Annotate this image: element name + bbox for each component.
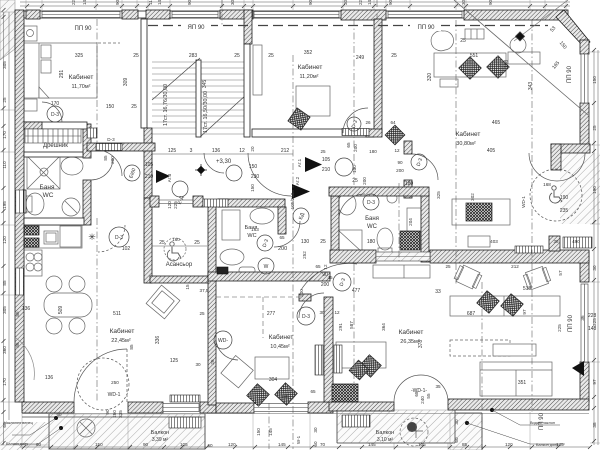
svg-text:225: 225 bbox=[173, 201, 178, 209]
svg-text:Балкон: Балкон bbox=[151, 430, 169, 436]
svg-text:130: 130 bbox=[301, 239, 310, 245]
svg-text:97: 97 bbox=[592, 379, 597, 385]
svg-text:85: 85 bbox=[15, 311, 20, 317]
svg-text:60: 60 bbox=[56, 412, 62, 417]
svg-text:3,39 м²: 3,39 м² bbox=[152, 437, 169, 443]
svg-text:687: 687 bbox=[467, 311, 476, 317]
svg-text:85: 85 bbox=[103, 155, 108, 161]
svg-text:15: 15 bbox=[185, 284, 190, 290]
svg-text:36: 36 bbox=[580, 315, 585, 321]
svg-text:325: 325 bbox=[436, 191, 441, 199]
svg-text:65: 65 bbox=[315, 264, 321, 269]
svg-text:302: 302 bbox=[470, 193, 475, 201]
svg-text:57: 57 bbox=[558, 270, 563, 276]
svg-text:509: 509 bbox=[58, 306, 64, 315]
svg-text:70: 70 bbox=[320, 442, 326, 447]
svg-text:283: 283 bbox=[189, 53, 198, 59]
svg-text:105: 105 bbox=[180, 442, 188, 447]
svg-text:D-3: D-3 bbox=[51, 112, 59, 118]
svg-text:140: 140 bbox=[367, 0, 372, 5]
svg-text:25: 25 bbox=[199, 311, 205, 316]
svg-text:33: 33 bbox=[435, 289, 441, 295]
svg-text:90: 90 bbox=[105, 409, 110, 415]
svg-text:490: 490 bbox=[572, 239, 580, 244]
svg-text:WD-: WD- bbox=[218, 338, 228, 344]
svg-text:352: 352 bbox=[304, 50, 313, 56]
svg-text:Кабинет: Кабинет bbox=[298, 63, 323, 71]
svg-text:25: 25 bbox=[194, 240, 200, 246]
svg-text:140: 140 bbox=[82, 0, 87, 5]
svg-text:200: 200 bbox=[353, 144, 358, 152]
svg-text:17ст. 16,76/30,00: 17ст. 16,76/30,00 bbox=[163, 84, 169, 126]
svg-text:85: 85 bbox=[462, 442, 468, 447]
svg-text:130: 130 bbox=[352, 165, 357, 173]
svg-text:64: 64 bbox=[390, 120, 396, 125]
svg-text:225: 225 bbox=[71, 0, 76, 5]
svg-text:110: 110 bbox=[2, 161, 7, 169]
svg-text:225: 225 bbox=[358, 0, 363, 5]
svg-text:D-3: D-3 bbox=[367, 200, 375, 206]
svg-text:45: 45 bbox=[327, 275, 333, 280]
svg-text:-WD-1-: -WD-1- bbox=[411, 388, 427, 394]
svg-text:D-3: D-3 bbox=[302, 314, 310, 320]
svg-text:403: 403 bbox=[490, 239, 498, 244]
svg-text:17ст. 16,50/30,00: 17ст. 16,50/30,00 bbox=[203, 91, 209, 133]
svg-text:200: 200 bbox=[396, 168, 404, 173]
svg-text:ПП 90: ПП 90 bbox=[75, 26, 93, 32]
svg-text:Ат.1: Ат.1 bbox=[297, 158, 302, 167]
svg-text:190: 190 bbox=[592, 186, 597, 194]
svg-text:Кабинет: Кабинет bbox=[69, 73, 94, 81]
svg-text:90: 90 bbox=[388, 0, 393, 5]
svg-text:105: 105 bbox=[145, 162, 154, 168]
svg-text:25: 25 bbox=[320, 149, 326, 154]
svg-text:277: 277 bbox=[267, 311, 276, 317]
svg-text:97: 97 bbox=[522, 309, 527, 315]
svg-text:125: 125 bbox=[168, 148, 177, 154]
svg-text:587: 587 bbox=[349, 321, 354, 329]
svg-text:WD-1: WD-1 bbox=[521, 196, 526, 208]
svg-text:204: 204 bbox=[408, 218, 413, 226]
svg-text:WC: WC bbox=[247, 233, 256, 239]
svg-text:30: 30 bbox=[343, 0, 348, 5]
svg-text:85: 85 bbox=[2, 280, 7, 286]
svg-text:120: 120 bbox=[505, 442, 513, 447]
svg-text:120: 120 bbox=[167, 201, 172, 209]
svg-text:ПП 90: ПП 90 bbox=[568, 314, 574, 332]
svg-text:25: 25 bbox=[268, 53, 274, 59]
svg-text:90: 90 bbox=[187, 0, 192, 5]
svg-text:150: 150 bbox=[592, 76, 597, 84]
svg-text:150: 150 bbox=[249, 164, 258, 170]
svg-text:136: 136 bbox=[22, 306, 31, 312]
svg-text:25: 25 bbox=[460, 38, 466, 44]
svg-text:W: W bbox=[264, 264, 269, 270]
svg-text:25: 25 bbox=[320, 239, 326, 245]
svg-text:26: 26 bbox=[365, 120, 371, 125]
svg-text:405: 405 bbox=[487, 148, 496, 154]
svg-text:11,20м²: 11,20м² bbox=[300, 74, 319, 80]
svg-text:Кабинет: Кабинет bbox=[456, 130, 481, 138]
svg-text:Ат.3: Ат.3 bbox=[167, 173, 172, 182]
svg-text:230: 230 bbox=[251, 174, 260, 180]
svg-text:30: 30 bbox=[592, 265, 597, 271]
svg-text:Видим наклон: Видим наклон bbox=[530, 421, 555, 425]
svg-text:343: 343 bbox=[528, 82, 534, 91]
svg-text:102: 102 bbox=[122, 246, 131, 252]
svg-text:140: 140 bbox=[157, 0, 162, 5]
svg-text:D-3: D-3 bbox=[115, 235, 123, 241]
svg-text:25: 25 bbox=[352, 178, 358, 184]
svg-text:60: 60 bbox=[36, 442, 42, 447]
svg-text:38: 38 bbox=[553, 239, 559, 244]
svg-text:+3,30: +3,30 bbox=[216, 159, 232, 165]
svg-text:115: 115 bbox=[148, 0, 153, 5]
svg-text:135: 135 bbox=[418, 442, 426, 447]
svg-text:195: 195 bbox=[2, 201, 7, 209]
svg-text:477: 477 bbox=[352, 288, 361, 294]
svg-text:12: 12 bbox=[239, 148, 245, 154]
svg-text:30: 30 bbox=[313, 427, 318, 433]
svg-text:30: 30 bbox=[319, 310, 325, 315]
svg-text:120: 120 bbox=[2, 236, 7, 244]
svg-text:163: 163 bbox=[251, 227, 259, 232]
svg-text:170: 170 bbox=[2, 378, 7, 386]
svg-text:180: 180 bbox=[367, 239, 376, 245]
svg-text:170: 170 bbox=[2, 131, 7, 139]
svg-text:235: 235 bbox=[118, 410, 123, 418]
svg-text:145: 145 bbox=[368, 442, 376, 447]
svg-text:Наклонен венец: Наклонен венец bbox=[4, 421, 34, 425]
svg-text:20: 20 bbox=[250, 146, 255, 152]
svg-text:325: 325 bbox=[75, 53, 84, 59]
svg-text:30: 30 bbox=[230, 0, 235, 5]
svg-text:200: 200 bbox=[362, 177, 367, 185]
svg-text:136: 136 bbox=[212, 148, 221, 154]
svg-text:86: 86 bbox=[15, 342, 20, 348]
svg-text:22,45м²: 22,45м² bbox=[111, 338, 131, 344]
svg-text:12: 12 bbox=[334, 310, 340, 315]
svg-text:511: 511 bbox=[113, 311, 121, 317]
svg-text:✳: ✳ bbox=[88, 232, 96, 242]
svg-text:305: 305 bbox=[2, 306, 7, 314]
svg-text:37,5: 37,5 bbox=[200, 288, 209, 293]
svg-text:85: 85 bbox=[129, 344, 134, 350]
svg-text:Кабинет: Кабинет bbox=[269, 333, 294, 341]
svg-text:465: 465 bbox=[492, 120, 501, 126]
svg-text:25: 25 bbox=[133, 53, 139, 59]
svg-text:148: 148 bbox=[588, 326, 597, 332]
svg-text:200: 200 bbox=[278, 246, 287, 252]
svg-text:WC: WC bbox=[43, 192, 54, 199]
svg-text:235: 235 bbox=[560, 208, 569, 214]
svg-text:30: 30 bbox=[461, 0, 466, 5]
svg-text:305: 305 bbox=[2, 61, 7, 69]
svg-text:3: 3 bbox=[190, 148, 193, 154]
svg-text:320: 320 bbox=[427, 73, 433, 82]
svg-text:30,80м²: 30,80м² bbox=[456, 141, 476, 147]
svg-text:180: 180 bbox=[369, 149, 377, 154]
svg-text:11,70м²: 11,70м² bbox=[72, 84, 91, 90]
svg-text:60: 60 bbox=[207, 443, 213, 448]
svg-text:336: 336 bbox=[155, 336, 161, 345]
svg-text:Баня: Баня bbox=[40, 184, 55, 191]
svg-text:3,10 м²: 3,10 м² bbox=[377, 437, 394, 443]
svg-text:150: 150 bbox=[112, 410, 117, 418]
svg-text:515: 515 bbox=[523, 286, 532, 292]
svg-text:25: 25 bbox=[234, 53, 240, 59]
svg-text:90: 90 bbox=[488, 0, 493, 5]
svg-text:WC: WC bbox=[367, 224, 378, 230]
svg-text:551: 551 bbox=[470, 53, 479, 59]
svg-text:Балкон: Балкон bbox=[376, 430, 394, 436]
svg-text:10,45м²: 10,45м² bbox=[270, 344, 290, 350]
svg-text:105: 105 bbox=[322, 157, 331, 163]
svg-text:35: 35 bbox=[435, 384, 441, 389]
svg-text:ЯП 90: ЯП 90 bbox=[188, 25, 206, 31]
svg-text:212: 212 bbox=[511, 264, 519, 269]
svg-text:65: 65 bbox=[346, 142, 351, 148]
svg-text:250: 250 bbox=[111, 380, 119, 385]
svg-text:145: 145 bbox=[278, 442, 286, 447]
svg-text:30: 30 bbox=[454, 419, 459, 425]
svg-text:210: 210 bbox=[322, 167, 331, 173]
svg-text:200: 200 bbox=[110, 156, 115, 164]
svg-text:168: 168 bbox=[504, 60, 510, 69]
svg-text:90: 90 bbox=[308, 0, 313, 5]
svg-text:378: 378 bbox=[418, 340, 424, 349]
svg-text:Балкон долу: Балкон долу bbox=[6, 442, 28, 446]
svg-text:364: 364 bbox=[381, 323, 386, 331]
svg-text:90: 90 bbox=[397, 160, 403, 165]
svg-text:160: 160 bbox=[172, 237, 180, 242]
svg-text:120: 120 bbox=[228, 442, 236, 447]
svg-text:150: 150 bbox=[95, 442, 103, 447]
svg-text:Ат.2: Ат.2 bbox=[295, 176, 300, 185]
svg-text:ПП 90: ПП 90 bbox=[567, 65, 573, 83]
svg-text:60: 60 bbox=[313, 441, 318, 447]
svg-text:180: 180 bbox=[405, 181, 414, 187]
svg-text:168: 168 bbox=[543, 182, 551, 187]
svg-text:D-3: D-3 bbox=[107, 137, 115, 142]
svg-text:25: 25 bbox=[2, 97, 7, 103]
svg-text:25: 25 bbox=[159, 240, 165, 246]
svg-text:Дрешник: Дрешник bbox=[43, 143, 68, 149]
svg-text:291: 291 bbox=[59, 70, 65, 79]
svg-text:150: 150 bbox=[250, 184, 255, 192]
svg-text:65: 65 bbox=[310, 389, 316, 394]
svg-text:180: 180 bbox=[281, 394, 289, 399]
svg-text:Кабинет: Кабинет bbox=[110, 327, 135, 335]
svg-text:25: 25 bbox=[131, 104, 137, 110]
svg-text:Асансьор: Асансьор bbox=[166, 262, 193, 268]
svg-text:25: 25 bbox=[445, 264, 451, 269]
svg-text:304: 304 bbox=[269, 377, 278, 383]
svg-text:252: 252 bbox=[302, 251, 307, 259]
svg-text:125: 125 bbox=[170, 358, 179, 364]
svg-text:12: 12 bbox=[394, 148, 400, 153]
svg-text:190: 190 bbox=[560, 195, 569, 201]
svg-text:200: 200 bbox=[321, 282, 330, 288]
svg-text:345: 345 bbox=[202, 80, 208, 89]
svg-text:Балкон долу: Балкон долу bbox=[536, 443, 558, 447]
svg-text:26: 26 bbox=[210, 359, 215, 365]
svg-text:25: 25 bbox=[391, 53, 397, 59]
svg-text:Баня: Баня bbox=[365, 216, 379, 222]
svg-text:WD-1: WD-1 bbox=[108, 392, 121, 398]
svg-text:136: 136 bbox=[45, 375, 54, 381]
svg-text:240: 240 bbox=[420, 396, 425, 404]
svg-text:12: 12 bbox=[323, 264, 328, 270]
svg-text:90: 90 bbox=[143, 442, 149, 447]
svg-text:30: 30 bbox=[195, 362, 201, 367]
svg-text:210: 210 bbox=[145, 174, 154, 180]
svg-text:309: 309 bbox=[123, 78, 129, 87]
svg-text:26,35м²: 26,35м² bbox=[400, 339, 420, 345]
svg-text:W-1: W-1 bbox=[296, 435, 301, 444]
svg-text:25: 25 bbox=[592, 125, 597, 131]
svg-text:150: 150 bbox=[106, 104, 115, 110]
svg-text:ПП 90: ПП 90 bbox=[418, 25, 436, 31]
svg-text:200: 200 bbox=[299, 289, 304, 297]
svg-text:360: 360 bbox=[2, 346, 7, 354]
svg-text:105/210: 105/210 bbox=[290, 192, 295, 209]
svg-text:228: 228 bbox=[588, 313, 597, 319]
svg-text:145: 145 bbox=[268, 428, 273, 436]
svg-text:249: 249 bbox=[356, 55, 365, 61]
svg-text:351: 351 bbox=[518, 380, 527, 386]
svg-text:225: 225 bbox=[557, 324, 562, 332]
svg-text:150: 150 bbox=[256, 428, 261, 436]
svg-text:65: 65 bbox=[279, 235, 285, 240]
svg-text:38: 38 bbox=[592, 422, 597, 428]
svg-text:90: 90 bbox=[115, 0, 120, 5]
svg-text:Кабинет: Кабинет bbox=[399, 328, 424, 336]
svg-text:212: 212 bbox=[281, 148, 290, 154]
svg-text:291: 291 bbox=[338, 323, 343, 331]
svg-text:60: 60 bbox=[454, 437, 459, 443]
svg-text:170: 170 bbox=[51, 101, 60, 107]
svg-text:90: 90 bbox=[322, 272, 328, 278]
